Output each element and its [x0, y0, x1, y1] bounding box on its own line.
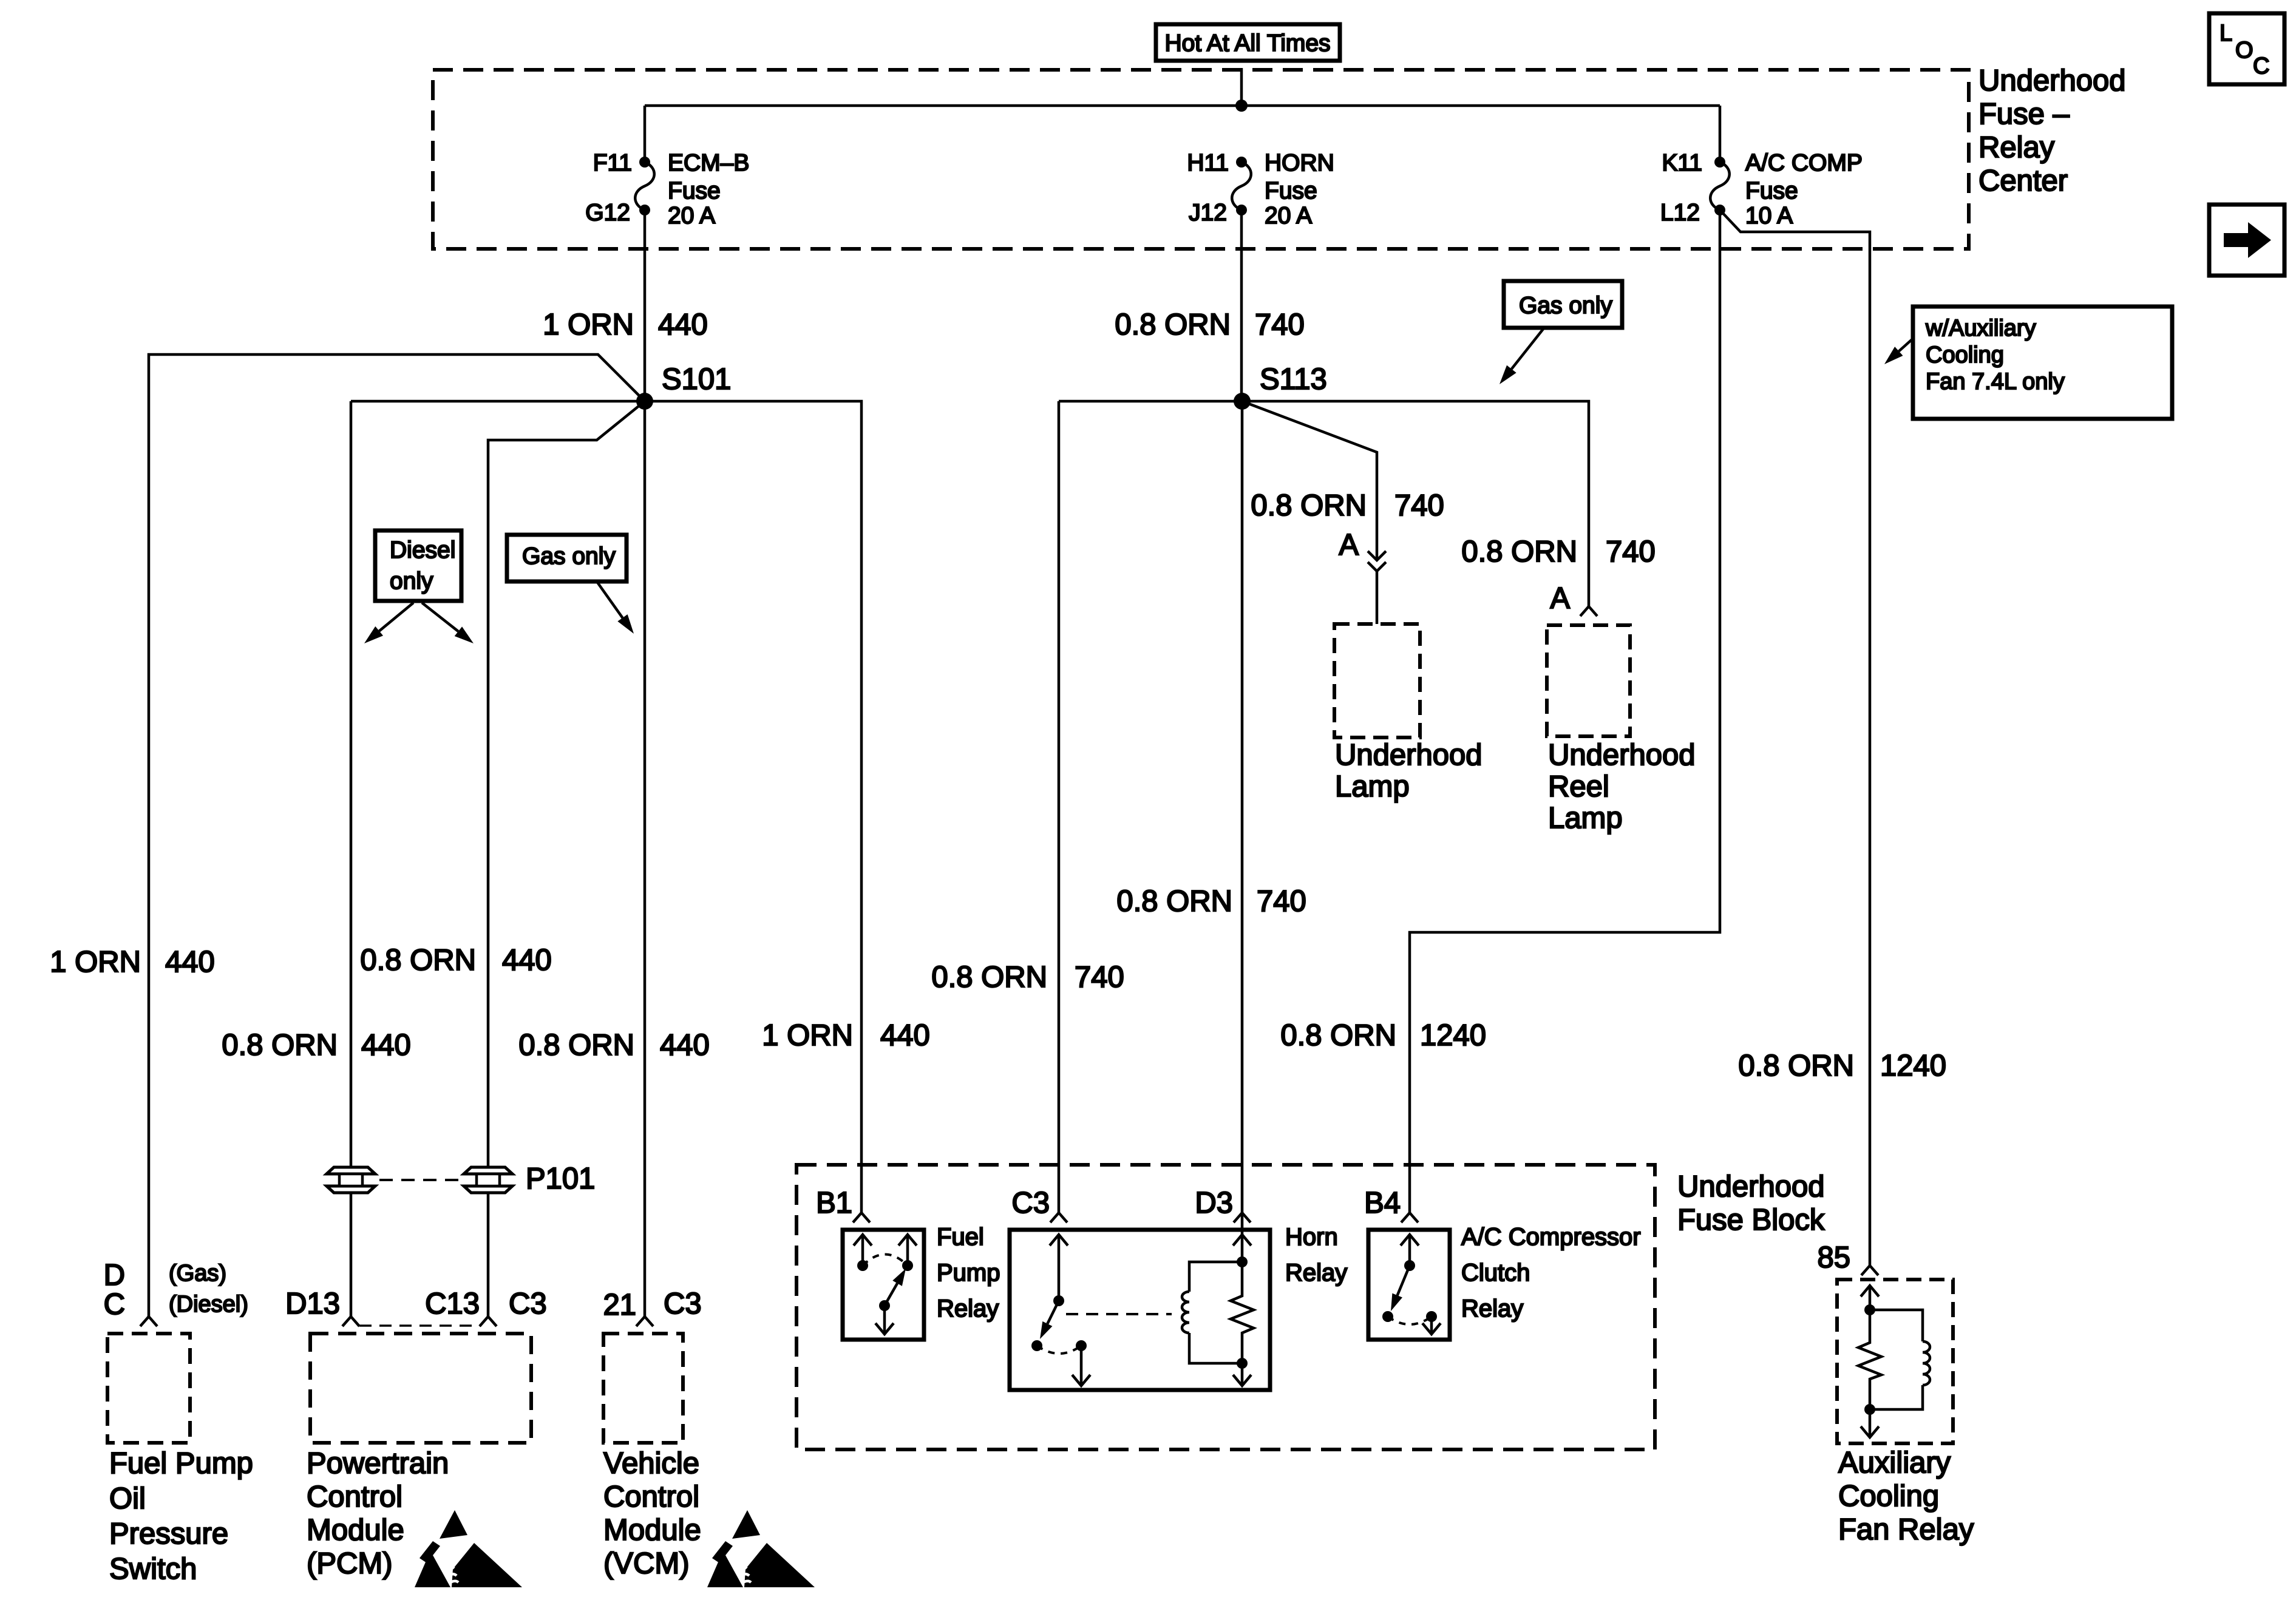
svg-text:21: 21	[603, 1289, 636, 1321]
svg-text:only: only	[390, 568, 433, 594]
svg-text:Relay: Relay	[1461, 1295, 1523, 1322]
loc reference box LOC	[2209, 13, 2284, 84]
horn relay: left contact dot	[1031, 1340, 1042, 1351]
svg-text:Underhood: Underhood	[1335, 739, 1482, 771]
svg-text:B4: B4	[1364, 1187, 1401, 1219]
svg-text:C3: C3	[664, 1287, 702, 1320]
svg-text:Fuse: Fuse	[668, 178, 721, 204]
svg-text:Switch: Switch	[109, 1553, 197, 1585]
svg-text:Vehicle: Vehicle	[603, 1447, 699, 1480]
svg-text:20 A: 20 A	[668, 203, 715, 229]
aux fan relay: coil windings	[1923, 1341, 1930, 1385]
pin chevron B1	[853, 1213, 870, 1222]
svg-text:A/C Compressor: A/C Compressor	[1461, 1224, 1641, 1250]
aux fan relay: resistor element	[1858, 1310, 1881, 1409]
svg-text:10 A: 10 A	[1745, 203, 1793, 229]
dashed link between P101 halves	[379, 1179, 460, 1181]
wire: battery feed from Hot At All Times box	[1240, 68, 1243, 106]
fuel pump relay: B1 terminal arrow	[861, 1235, 864, 1266]
underhood fuse-relay center dashed box	[433, 70, 1969, 249]
inline connector: double chevron on underhood lamp wire	[1368, 551, 1386, 560]
svg-text:Gas only: Gas only	[1519, 293, 1612, 319]
svg-text:D: D	[104, 1259, 125, 1292]
esd warning symbol (VCM)	[732, 1510, 760, 1539]
flag box: Diesel only	[375, 531, 461, 601]
svg-text:B1: B1	[816, 1187, 852, 1219]
fuel pump relay: switch blade arrow	[885, 1283, 897, 1306]
svg-text:G12: G12	[585, 200, 630, 226]
svg-text:S113: S113	[1260, 363, 1327, 396]
pin chevron D3	[1234, 1213, 1251, 1222]
inline connector P101 on C13 wire	[464, 1167, 512, 1174]
svg-text:P101: P101	[526, 1162, 595, 1195]
svg-text:H11: H11	[1187, 150, 1229, 176]
wire: connector to underhood lamp	[1376, 571, 1379, 624]
svg-text:0.8 ORN: 0.8 ORN	[222, 1029, 338, 1062]
svg-text:Fuse: Fuse	[1745, 178, 1798, 204]
horn relay: coil bottom node dot	[1237, 1358, 1248, 1369]
svg-text:D13: D13	[285, 1287, 340, 1320]
horn relay box	[1010, 1230, 1270, 1390]
pin chevron C13	[480, 1317, 497, 1326]
a/c clutch relay: switch blade arrow	[1398, 1266, 1410, 1295]
svg-text:Relay: Relay	[1285, 1259, 1347, 1286]
fuel pump oil pressure switch dashed box	[107, 1334, 190, 1443]
svg-text:Diesel: Diesel	[390, 537, 455, 563]
svg-text:740: 740	[1257, 885, 1306, 918]
splice S101	[636, 393, 653, 410]
svg-text:740: 740	[1075, 961, 1124, 994]
horn relay: coil top node dot	[1237, 1256, 1248, 1267]
fuel pump relay: common dot	[879, 1300, 890, 1311]
fuse ECM-B 20A (F11-G12)	[639, 157, 650, 168]
svg-text:1 ORN: 1 ORN	[762, 1019, 853, 1052]
horn relay: resistor element	[1231, 1262, 1254, 1363]
fuse HORN 20A (H11-J12)	[1236, 157, 1247, 168]
a/c clutch relay: right contact dot	[1426, 1311, 1437, 1322]
svg-text:HORN: HORN	[1265, 150, 1334, 176]
aux fan relay: feed arrow	[1869, 1286, 1872, 1310]
svg-text:0.8 ORN: 0.8 ORN	[1251, 489, 1367, 522]
pin chevron 85	[1861, 1266, 1878, 1275]
horn relay: coil windings	[1182, 1292, 1189, 1333]
svg-text:0.8 ORN: 0.8 ORN	[360, 944, 476, 977]
svg-text:Gas only: Gas only	[522, 543, 616, 569]
svg-text:Fan 7.4L only: Fan 7.4L only	[1926, 369, 2065, 395]
svg-text:0.8 ORN: 0.8 ORN	[1115, 308, 1231, 341]
node: bus junction at H11 feed	[1235, 100, 1248, 112]
svg-text:440: 440	[880, 1019, 930, 1052]
svg-text:A: A	[1339, 529, 1359, 561]
arrow: Gas only to reel lamp wire	[1512, 329, 1543, 369]
underhood reel lamp dashed box	[1547, 625, 1630, 736]
svg-text:Fuel Pump: Fuel Pump	[109, 1447, 253, 1480]
svg-text:Lamp: Lamp	[1335, 770, 1410, 803]
svg-text:440: 440	[660, 1029, 710, 1062]
wire: bus drop to fuse K11	[1719, 106, 1722, 162]
svg-text:(VCM): (VCM)	[603, 1547, 690, 1580]
wire: S101 to fuel pump relay B1 branch	[645, 401, 861, 1213]
svg-text:w/Auxiliary: w/Auxiliary	[1925, 316, 2036, 341]
wire: fuse L12 to auxiliary cooling fan relay	[1720, 210, 1870, 1265]
svg-text:D3: D3	[1195, 1187, 1233, 1219]
wire: S113 down to horn relay D3	[1241, 401, 1244, 1262]
pin chevron: reel lamp A	[1580, 606, 1597, 616]
svg-text:Relay: Relay	[937, 1295, 999, 1322]
svg-text:Auxiliary: Auxiliary	[1838, 1446, 1951, 1479]
wire: main bus across fuse-relay center	[645, 104, 1720, 107]
aux fan relay: coil branch wiring	[1870, 1310, 1923, 1341]
svg-text:Powertrain: Powertrain	[307, 1447, 449, 1480]
flag box: Gas only (VCM branch)	[507, 535, 627, 581]
horn relay: coil branch wiring	[1189, 1262, 1242, 1292]
svg-text:440: 440	[658, 308, 708, 341]
a/c clutch relay: common dot	[1404, 1260, 1415, 1271]
svg-text:Module: Module	[603, 1514, 701, 1547]
svg-text:0.8 ORN: 0.8 ORN	[1461, 535, 1577, 568]
svg-text:(PCM): (PCM)	[307, 1547, 393, 1580]
fuel pump relay: output terminal arrow	[906, 1235, 909, 1266]
wire: S113 to horn relay C3 branch	[1059, 400, 1242, 403]
arrow: Diesel only to PCM C13 wire	[422, 603, 458, 631]
svg-text:S101: S101	[662, 363, 731, 396]
svg-text:Pump: Pump	[937, 1259, 1000, 1286]
svg-text:0.8 ORN: 0.8 ORN	[1280, 1019, 1396, 1052]
pin chevron 21	[636, 1317, 653, 1326]
a/c clutch relay: B4 terminal arrow	[1408, 1235, 1411, 1266]
powertrain control module dashed box	[310, 1334, 531, 1443]
auxiliary cooling fan relay dashed box	[1837, 1280, 1953, 1443]
a/c clutch relay: output down arrow	[1430, 1317, 1433, 1334]
svg-text:Center: Center	[1978, 164, 2068, 197]
svg-text:Fuse Block: Fuse Block	[1677, 1204, 1825, 1236]
svg-text:1240: 1240	[1420, 1019, 1486, 1052]
svg-text:740: 740	[1606, 535, 1656, 568]
horn relay: D3 feed arrow inside box	[1233, 1235, 1251, 1246]
svg-text:(Diesel): (Diesel)	[169, 1292, 248, 1317]
svg-text:O: O	[2235, 38, 2254, 63]
wire: fuse G12 down to splice S101	[644, 210, 647, 401]
svg-text:740: 740	[1394, 489, 1444, 522]
svg-text:Module: Module	[307, 1514, 404, 1547]
svg-text:Fan Relay: Fan Relay	[1838, 1513, 1974, 1546]
svg-text:Lamp: Lamp	[1548, 802, 1623, 835]
vehicle control module dashed box	[603, 1334, 683, 1443]
svg-text:0.8 ORN: 0.8 ORN	[931, 961, 1047, 994]
off-page arrow box	[2209, 205, 2284, 276]
svg-text:Clutch: Clutch	[1461, 1259, 1530, 1286]
svg-text:Oil: Oil	[109, 1482, 146, 1515]
fuel pump relay: terminal dots	[857, 1260, 868, 1271]
underhood fuse block dashed box	[796, 1165, 1655, 1449]
svg-text:Underhood: Underhood	[1978, 64, 2125, 97]
underhood lamp dashed box	[1334, 624, 1420, 737]
wire: S101 to PCM D13 branch	[351, 400, 645, 403]
svg-text:440: 440	[502, 944, 552, 977]
svg-text:L12: L12	[1660, 200, 1700, 226]
horn relay: coil return down arrow	[1241, 1363, 1244, 1386]
power label box: Hot At All Times	[1156, 24, 1340, 61]
svg-text:K11: K11	[1662, 150, 1703, 176]
svg-text:1240: 1240	[1880, 1049, 1946, 1082]
wire: S101 down to VCM pin 21	[644, 401, 647, 1317]
splice S113	[1234, 393, 1251, 410]
horn relay: output down arrow	[1080, 1346, 1083, 1386]
pin chevron D13	[342, 1317, 359, 1326]
svg-text:C13: C13	[425, 1287, 480, 1320]
aux fan relay: top node dot	[1864, 1304, 1875, 1315]
svg-text:A/C COMP: A/C COMP	[1745, 150, 1863, 176]
wire: S113 to underhood lamp branch	[1242, 401, 1377, 559]
fuel pump relay box	[843, 1230, 924, 1340]
svg-text:C: C	[104, 1288, 125, 1321]
svg-text:Cooling: Cooling	[1838, 1480, 1939, 1513]
flag box: Gas only (reel lamp branch)	[1504, 281, 1622, 328]
svg-text:Hot At All Times: Hot At All Times	[1164, 30, 1330, 56]
aux fan relay: return down arrow	[1869, 1409, 1872, 1437]
wire: fuse L12 to A/C compressor clutch relay B4	[1410, 210, 1720, 1213]
svg-text:C3: C3	[509, 1287, 547, 1320]
horn relay: right contact dot	[1076, 1340, 1087, 1351]
svg-text:(Gas): (Gas)	[169, 1261, 226, 1286]
horn relay: switch common dot	[1053, 1295, 1064, 1306]
svg-text:Fuse: Fuse	[1265, 178, 1317, 204]
wire: S101 to fuel pump oil pressure switch (left branch)	[149, 354, 645, 1317]
a/c clutch relay: dashed travel arc	[1388, 1317, 1432, 1324]
svg-text:C: C	[2253, 53, 2269, 79]
svg-text:ECM–B: ECM–B	[668, 150, 749, 176]
dashed link between PCM pins D13 and C13	[359, 1324, 481, 1327]
fuel pump relay: common terminal down arrow	[883, 1306, 886, 1334]
wire: S113 to underhood reel lamp branch	[1242, 401, 1589, 606]
svg-text:740: 740	[1255, 308, 1305, 341]
wire: S101 to PCM C13 branch	[488, 401, 645, 1317]
wire: bus drop to fuse F11	[644, 106, 647, 162]
svg-text:L: L	[2220, 21, 2232, 46]
svg-text:85: 85	[1817, 1241, 1850, 1274]
inline connector P101 on D13 wire	[327, 1167, 375, 1174]
esd warning symbol (PCM)	[440, 1510, 467, 1539]
svg-text:Pressure: Pressure	[109, 1517, 228, 1550]
svg-text:C3: C3	[1011, 1187, 1050, 1219]
svg-text:Control: Control	[307, 1480, 402, 1513]
svg-text:Underhood: Underhood	[1677, 1170, 1824, 1203]
svg-text:440: 440	[165, 946, 215, 978]
svg-text:Cooling: Cooling	[1926, 342, 2004, 368]
svg-text:J12: J12	[1189, 200, 1227, 226]
svg-text:Fuel: Fuel	[937, 1224, 984, 1250]
pin chevron: oil pressure switch	[140, 1317, 157, 1326]
svg-text:Fuse –: Fuse –	[1978, 98, 2070, 131]
svg-text:Relay: Relay	[1978, 131, 2055, 164]
svg-text:0.8 ORN: 0.8 ORN	[1738, 1049, 1854, 1082]
arrow: Gas only to VCM wire	[597, 581, 622, 618]
aux fan relay: bottom node dot	[1864, 1404, 1875, 1415]
arrow: Diesel only to PCM D13 wire	[379, 603, 413, 631]
horn relay: switch blade arrow	[1047, 1301, 1059, 1324]
svg-text:440: 440	[361, 1029, 411, 1062]
svg-text:1 ORN: 1 ORN	[543, 308, 634, 341]
svg-text:0.8 ORN: 0.8 ORN	[518, 1029, 634, 1062]
horn relay: C3 terminal arrow	[1058, 1235, 1061, 1301]
svg-text:0.8 ORN: 0.8 ORN	[1116, 885, 1232, 918]
svg-text:F11: F11	[593, 150, 632, 176]
svg-text:1 ORN: 1 ORN	[50, 946, 141, 978]
a/c compressor clutch relay box	[1368, 1230, 1450, 1340]
arrow: w/Auxiliary box to fan relay wire	[1899, 337, 1914, 351]
svg-text:20 A: 20 A	[1265, 203, 1312, 229]
a/c clutch relay: left contact dot	[1382, 1311, 1393, 1322]
svg-text:Reel: Reel	[1548, 770, 1609, 803]
svg-text:Horn: Horn	[1285, 1224, 1338, 1250]
horn relay: dashed travel arc	[1037, 1346, 1081, 1354]
wire: fuse J12 down to splice S113	[1240, 210, 1243, 401]
fuel pump relay: dashed travel arc	[863, 1255, 908, 1266]
svg-text:Underhood: Underhood	[1548, 739, 1695, 771]
pin chevron C3 (horn relay)	[1050, 1213, 1067, 1222]
horn relay: dashed mechanical link to coil	[1066, 1313, 1172, 1315]
svg-text:A: A	[1550, 582, 1570, 615]
pin chevron B4	[1401, 1213, 1418, 1222]
fuse A/C COMP 10A (K11-L12)	[1714, 157, 1725, 168]
flag box: w/Auxiliary Cooling Fan 7.4L only	[1913, 307, 2172, 419]
svg-text:Control: Control	[603, 1480, 699, 1513]
